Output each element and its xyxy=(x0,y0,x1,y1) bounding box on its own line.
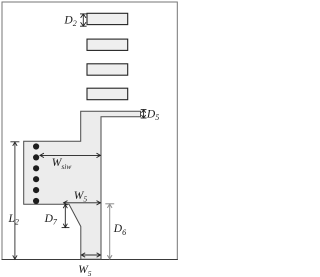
dimension arrow W5 bottom xyxy=(81,253,100,257)
dimension arrow D5 xyxy=(141,110,147,118)
svg-text:W5: W5 xyxy=(78,264,92,277)
frame bottom line (substrate edge) xyxy=(2,259,178,261)
svg-text:L2: L2 xyxy=(8,213,19,227)
dimension arrow D2 xyxy=(80,14,87,26)
svg-text:D6: D6 xyxy=(113,223,126,237)
dimension arrow D7 xyxy=(62,204,70,227)
via hole 1 xyxy=(33,143,39,149)
border frame xyxy=(2,2,177,260)
dimension arrow D6 xyxy=(105,204,114,259)
via hole 5 xyxy=(33,187,39,193)
via hole 2 xyxy=(33,154,39,160)
svg-text:D2: D2 xyxy=(63,14,76,28)
slot rectangle 1 xyxy=(87,13,128,24)
dimension arrow W5 upper xyxy=(63,201,100,205)
dimension arrow L2 xyxy=(10,142,19,259)
slot rectangle 3 xyxy=(87,64,128,75)
slot rectangle 2 xyxy=(87,39,128,50)
slot rectangle 4 xyxy=(87,88,128,100)
via hole 6 xyxy=(33,198,39,204)
via hole 3 xyxy=(33,165,39,171)
via hole 4 xyxy=(33,176,39,182)
svg-text:D7: D7 xyxy=(44,213,58,227)
svg-text:D5: D5 xyxy=(146,109,159,123)
main SIW patch polygon xyxy=(24,111,141,259)
dimension arrow Wsiw xyxy=(40,153,101,157)
